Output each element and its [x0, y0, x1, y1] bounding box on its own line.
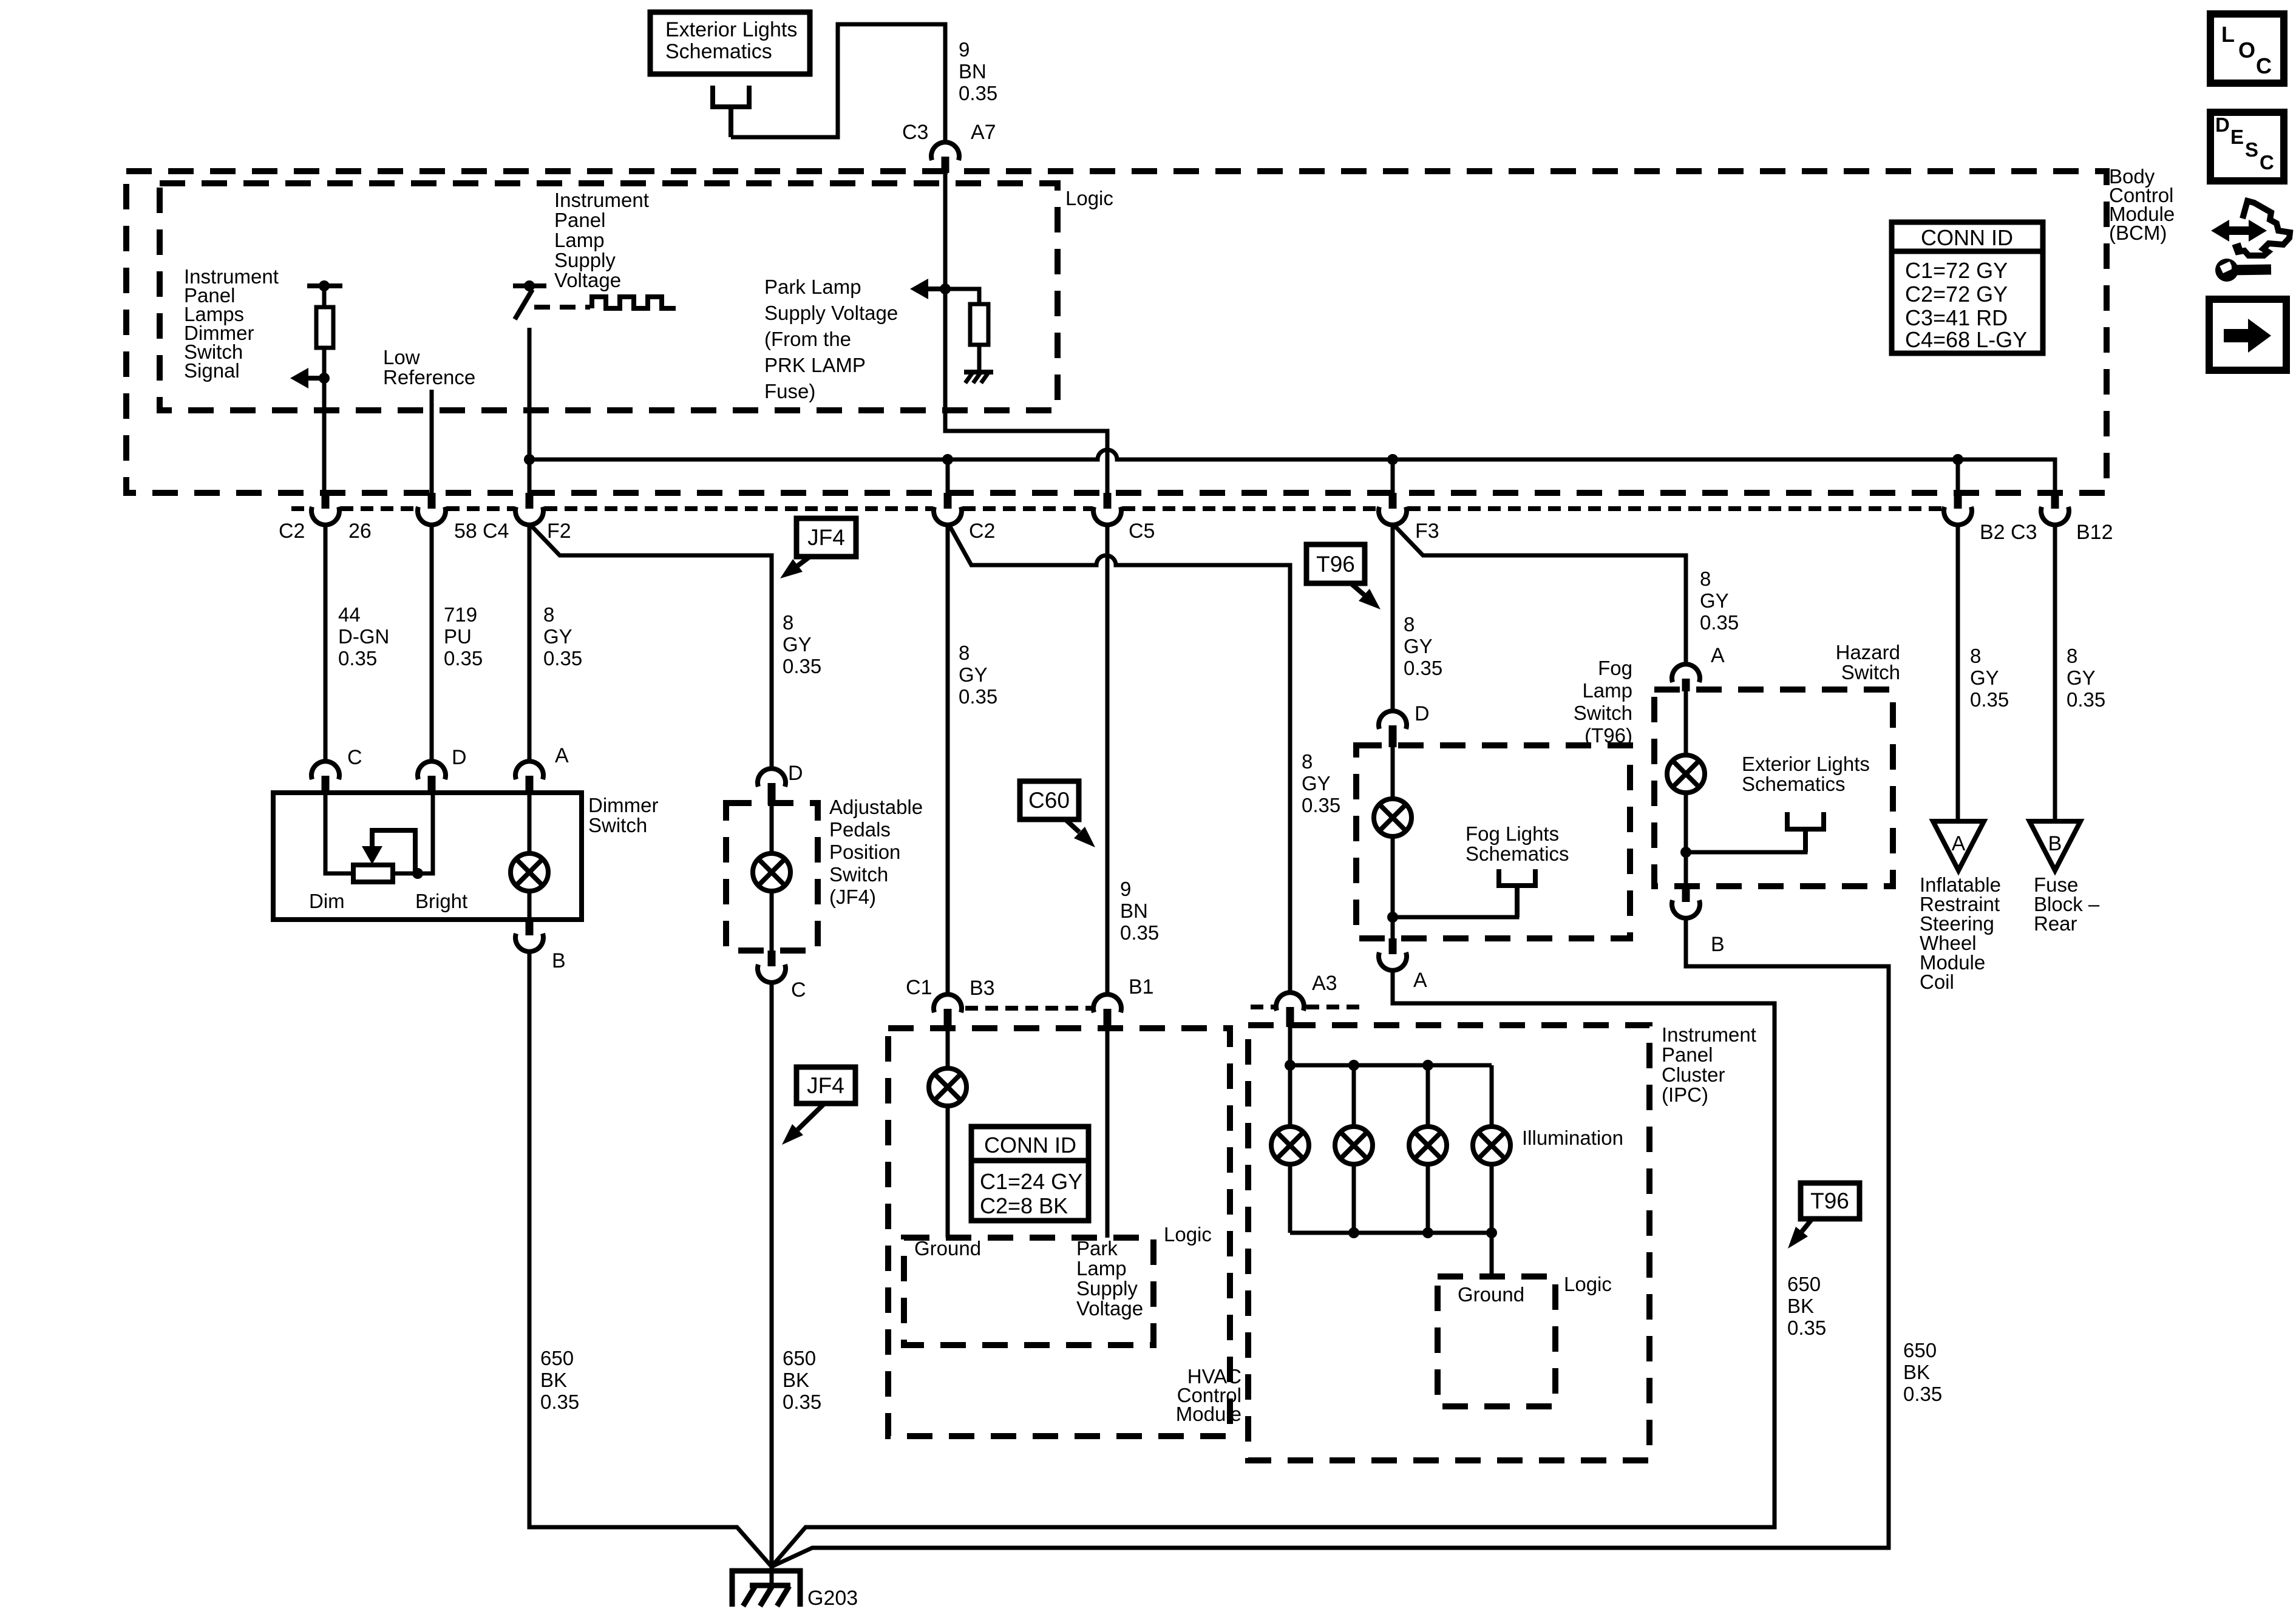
off-page triangle A	[1933, 821, 1984, 870]
connector C dimmer	[311, 761, 339, 795]
svg-text:F3: F3	[1415, 520, 1439, 543]
svg-text:Schematics: Schematics	[665, 40, 772, 63]
svg-text:BK: BK	[1903, 1361, 1930, 1383]
svg-text:Park Lamp: Park Lamp	[764, 276, 861, 298]
svg-text:S: S	[2245, 138, 2258, 161]
CONN ID box BCM	[1892, 222, 2043, 353]
label 9 BN 0.35	[959, 38, 997, 104]
wire to resistor park lamp	[945, 289, 979, 304]
wire 8 GY B2 to triangle A	[1956, 524, 1960, 821]
svg-text:D: D	[788, 762, 803, 785]
svg-text:(JF4): (JF4)	[829, 886, 876, 908]
wire D to lamp fog	[1391, 745, 1395, 799]
junction dot F2 bus	[524, 454, 535, 465]
lamp JF4	[753, 853, 790, 891]
svg-text:8: 8	[1404, 613, 1415, 636]
pulse waveform symbol	[592, 297, 676, 308]
label Instrument Panel Cluster (IPC)	[1662, 1023, 1756, 1106]
label Low Reference	[383, 346, 475, 388]
label Instrument Panel Lamps Dimmer Switch Signal	[184, 265, 279, 382]
label HVAC Control Module	[1176, 1365, 1241, 1425]
svg-text:C2: C2	[279, 520, 305, 543]
bus wire inside BCM with hop over C5 wire	[529, 450, 2055, 493]
label Ground HVAC	[914, 1237, 981, 1259]
svg-text:BK: BK	[540, 1369, 567, 1391]
dash-dot control line	[534, 305, 590, 310]
svg-text:L: L	[2221, 22, 2235, 47]
wire resistor to ground	[977, 345, 982, 372]
label Adjustable Pedals Position Switch (JF4)	[829, 796, 923, 908]
arrow T96 bottom	[1788, 1219, 1812, 1249]
connector C JF4	[758, 951, 786, 983]
svg-text:Switch: Switch	[1841, 661, 1900, 683]
pin label C4	[483, 520, 509, 543]
svg-text:JF4: JF4	[807, 525, 845, 550]
wire lamp to box bottom JF4	[770, 890, 774, 951]
svg-text:Instrument: Instrument	[1662, 1023, 1756, 1046]
pin label C1	[906, 976, 932, 999]
junction dot F3 bus	[1387, 454, 1398, 465]
wire lamp to box bottom dimmer	[528, 890, 532, 920]
connector D fog	[1379, 711, 1407, 747]
pin label 58	[454, 520, 477, 543]
potentiometer dimmer	[353, 865, 393, 882]
svg-text:58: 58	[454, 520, 477, 543]
svg-text:BN: BN	[1120, 900, 1148, 922]
svg-text:Logic: Logic	[1564, 1273, 1612, 1295]
svg-text:GY: GY	[1404, 635, 1433, 657]
wire bus to C2 connector	[946, 459, 950, 493]
svg-text:0.35: 0.35	[2067, 688, 2105, 711]
pin label C JF4	[791, 978, 806, 1002]
svg-text:B2 C3: B2 C3	[1980, 521, 2037, 544]
connector B hazard	[1672, 886, 1700, 918]
svg-text:C4=68 L-GY: C4=68 L-GY	[1905, 327, 2027, 352]
connector D dimmer	[418, 761, 446, 795]
junction dot bus2 c	[1486, 1227, 1497, 1238]
label 44 D-GN 0.35	[338, 603, 389, 670]
pin label F3	[1415, 520, 1439, 543]
svg-text:Schematics: Schematics	[1466, 842, 1569, 865]
svg-text:A: A	[1711, 644, 1725, 667]
illumination bottom bus	[1290, 1231, 1492, 1235]
wire fog junction down	[1391, 917, 1395, 938]
svg-text:GY: GY	[543, 625, 572, 648]
wire lamp hazard to junction	[1684, 793, 1688, 852]
wire from bracket to connector C3 A7	[731, 24, 945, 143]
svg-text:F2: F2	[547, 520, 571, 543]
label box JF4 bottom	[796, 1067, 855, 1103]
label Logic HVAC	[1164, 1223, 1212, 1246]
instrument panel cluster dashed box	[1248, 1025, 1649, 1460]
wire lamp2 top	[1352, 1065, 1356, 1127]
svg-text:8: 8	[959, 642, 970, 664]
label box T96 bottom	[1801, 1183, 1860, 1219]
connector A dimmer	[515, 761, 543, 795]
svg-text:Switch: Switch	[1574, 702, 1632, 724]
lamp hazard	[1667, 755, 1705, 793]
svg-text:Ground: Ground	[914, 1237, 981, 1259]
svg-text:GY: GY	[1970, 666, 1999, 689]
lamp HVAC	[929, 1068, 966, 1106]
pin label C2 HVAC	[969, 520, 995, 543]
wire lamp3 top	[1426, 1065, 1430, 1127]
label 650 BK 0.35 (dimmer)	[540, 1347, 579, 1413]
pin label F2	[547, 520, 571, 543]
pin label A hazard	[1711, 644, 1725, 667]
svg-text:CONN ID: CONN ID	[984, 1133, 1076, 1158]
connector F2 at BCM bottom	[515, 493, 543, 525]
wire 650 BK hazard B to ground	[772, 919, 1889, 1567]
svg-text:Low: Low	[383, 346, 420, 368]
svg-text:0.35: 0.35	[783, 1391, 821, 1413]
svg-text:9: 9	[1120, 878, 1131, 900]
svg-text:0.35: 0.35	[1302, 794, 1340, 816]
label 8 GY 0.35 (F3)	[1404, 613, 1442, 679]
pin label D fog	[1415, 702, 1430, 725]
svg-text:C2=8 BK: C2=8 BK	[980, 1193, 1068, 1218]
svg-text:0.35: 0.35	[959, 685, 997, 708]
svg-text:A7: A7	[971, 121, 996, 144]
in-line dotted line IPC top	[1251, 1005, 1360, 1009]
junction dot bus1 a	[1285, 1060, 1296, 1071]
lamp IPC 1	[1271, 1127, 1309, 1164]
junction dot bus1 c	[1422, 1060, 1433, 1071]
svg-text:GY: GY	[1302, 772, 1331, 795]
CONN ID box HVAC	[971, 1127, 1089, 1221]
svg-text:C: C	[791, 978, 806, 1002]
label 8 GY 0.35 (IPC)	[1302, 750, 1340, 816]
wire 8 GY C2 to HVAC C1	[946, 524, 950, 994]
svg-text:Voltage: Voltage	[554, 269, 621, 291]
adjustable pedals position switch dashed box	[726, 803, 818, 951]
illumination top bus	[1290, 1063, 1492, 1068]
svg-text:C4: C4	[483, 520, 509, 543]
svg-text:B1: B1	[1129, 975, 1154, 998]
connector C3 A7	[931, 142, 959, 173]
label box C60	[1020, 781, 1079, 819]
svg-text:0.35: 0.35	[1970, 688, 2009, 711]
icon box arrow right	[2209, 299, 2286, 370]
wire 8 GY B12 to triangle B	[2053, 524, 2057, 821]
pin label A3	[1312, 972, 1337, 995]
svg-text:O: O	[2238, 38, 2255, 63]
wire hazard junction to bracket	[1686, 829, 1805, 852]
wire 719 PU to dimmer D	[430, 524, 434, 761]
svg-text:A: A	[1413, 969, 1427, 992]
off-page triangle B	[2029, 821, 2080, 870]
label Body Control Module (BCM)	[2109, 165, 2175, 244]
wire Low Reference to 58 C4 connector	[430, 390, 434, 493]
svg-text:(IPC): (IPC)	[1662, 1083, 1708, 1106]
in-line dotted line HVAC top	[965, 1006, 1092, 1011]
svg-text:Fog: Fog	[1598, 657, 1632, 679]
connector C5 at BCM bottom	[1093, 493, 1121, 525]
label Park Lamp Supply Voltage HVAC	[1076, 1237, 1143, 1320]
label C3	[902, 121, 928, 144]
bracket fog lights schematics	[1499, 869, 1535, 917]
svg-text:GY: GY	[2067, 666, 2096, 689]
svg-text:Coil: Coil	[1920, 971, 1954, 993]
svg-text:C: C	[2260, 151, 2274, 174]
icon box LOC	[2210, 14, 2284, 83]
icon vehicle with wrench	[2211, 201, 2290, 282]
svg-text:Lamp: Lamp	[1076, 1257, 1127, 1280]
label Fog Lamp Switch (T96)	[1574, 657, 1632, 747]
hazard switch dashed box	[1654, 690, 1893, 886]
label Hazard Switch	[1836, 641, 1900, 683]
wire 8 GY F2 to dimmer A	[528, 524, 532, 761]
label 8 GY 0.35 (B2)	[1970, 645, 2009, 711]
svg-text:Bright: Bright	[415, 890, 467, 912]
resistor R dimmer signal	[316, 288, 333, 348]
pin label B2 C3	[1980, 521, 2037, 544]
lamp IPC 2	[1335, 1127, 1373, 1164]
switch blade IP lamp supply	[515, 290, 532, 319]
wire A to lamp hazard	[1684, 690, 1688, 755]
lamp fog	[1374, 799, 1411, 836]
svg-text:(BCM): (BCM)	[2109, 222, 2167, 244]
in-line connector dotted line BCM bottom	[291, 506, 1943, 511]
svg-text:Supply Voltage: Supply Voltage	[764, 302, 898, 324]
connector B dimmer	[515, 920, 543, 952]
wire 650 BK fog A to ground	[772, 971, 1775, 1567]
lamp IPC 4	[1473, 1127, 1510, 1164]
svg-text:A: A	[555, 744, 569, 767]
wire lamp1 top	[1288, 1065, 1292, 1127]
label 650 BK 0.35 (hazard)	[1903, 1339, 1942, 1405]
svg-text:B3: B3	[970, 977, 995, 1000]
svg-text:0.35: 0.35	[543, 647, 582, 670]
svg-text:D: D	[452, 746, 467, 769]
svg-text:0.35: 0.35	[1404, 657, 1442, 679]
svg-text:T96: T96	[1810, 1188, 1849, 1213]
svg-text:650: 650	[1903, 1339, 1937, 1361]
svg-text:C3: C3	[902, 121, 928, 144]
svg-text:A3: A3	[1312, 972, 1337, 995]
box Exterior Lights Schematics (top reference)	[650, 12, 810, 74]
pin label C2	[279, 520, 305, 543]
wire C3 A7 down and jog to C5	[945, 171, 1107, 493]
svg-text:Logic: Logic	[1164, 1223, 1212, 1246]
svg-text:8: 8	[1970, 645, 1981, 667]
svg-text:44: 44	[338, 603, 361, 626]
svg-text:8: 8	[1700, 568, 1711, 590]
svg-text:0.35: 0.35	[540, 1391, 579, 1413]
wire A to lamp dimmer	[528, 793, 532, 854]
svg-text:Park: Park	[1076, 1237, 1118, 1259]
svg-text:C1=72 GY: C1=72 GY	[1905, 258, 2008, 283]
junction dot dimmer signal	[319, 373, 330, 384]
svg-text:GY: GY	[783, 633, 812, 656]
svg-text:0.35: 0.35	[1700, 611, 1739, 634]
label Fuse Block Rear	[2034, 873, 2100, 935]
svg-text:0.35: 0.35	[783, 655, 821, 677]
label G203	[807, 1587, 858, 1610]
svg-text:Dimmer: Dimmer	[588, 794, 658, 816]
svg-text:C: C	[347, 746, 362, 769]
svg-text:Reference: Reference	[383, 366, 475, 388]
wire bus to F3 connector	[1391, 459, 1395, 493]
pin label C dimmer	[347, 746, 362, 769]
connector C2 HVAC at BCM bottom	[934, 493, 962, 525]
wire lamp4 bottom	[1490, 1164, 1494, 1233]
svg-text:0.35: 0.35	[444, 647, 483, 670]
label Dim	[309, 890, 345, 912]
junction dot bus2 b	[1422, 1227, 1433, 1238]
svg-text:BK: BK	[783, 1369, 809, 1391]
wire 44 D-GN to dimmer C	[324, 524, 328, 761]
svg-text:B: B	[2048, 832, 2062, 855]
wire JF4 top to lamp	[770, 803, 774, 854]
arrow Instrument Panel Lamps Dimmer Switch Signal	[290, 368, 324, 388]
node bar for lamp supply switch	[513, 280, 546, 291]
svg-text:C5: C5	[1129, 520, 1155, 543]
svg-text:GY: GY	[959, 663, 988, 686]
svg-text:C60: C60	[1028, 788, 1070, 813]
svg-text:Cluster: Cluster	[1662, 1063, 1725, 1086]
wire 650 BK JF4 to ground	[770, 983, 774, 1569]
svg-text:GY: GY	[1700, 589, 1729, 612]
svg-text:Signal: Signal	[184, 359, 240, 382]
label Fog Lights Schematics	[1466, 822, 1569, 865]
fog lamp switch dashed box	[1356, 745, 1630, 938]
connector A3 IPC	[1276, 992, 1304, 1027]
svg-text:0.35: 0.35	[1787, 1317, 1826, 1339]
bracket symbol below Exterior Lights box	[713, 86, 749, 137]
connector 58 C4 at BCM bottom	[418, 493, 446, 525]
pin label B12	[2076, 521, 2113, 544]
label Logic (BCM)	[1065, 187, 1113, 209]
arrow JF4 bottom	[782, 1103, 824, 1145]
label 8 GY 0.35 (HVAC)	[959, 642, 997, 708]
svg-text:0.35: 0.35	[338, 647, 377, 670]
svg-text:650: 650	[1787, 1273, 1821, 1295]
svg-text:BK: BK	[1787, 1295, 1814, 1317]
pin label B hazard	[1711, 933, 1725, 956]
svg-text:Lamp: Lamp	[1582, 679, 1632, 702]
junction dot B2 bus	[1952, 454, 1963, 465]
pin label A fog	[1413, 969, 1427, 992]
svg-text:C2: C2	[969, 520, 995, 543]
wire bus to B2 C3 connector	[1956, 459, 1960, 493]
svg-text:Switch: Switch	[829, 863, 888, 886]
label Inflatable Restraint Steering Wheel Module Coil	[1920, 873, 2001, 993]
pin label C5	[1129, 520, 1155, 543]
connector C1 B3 HVAC	[934, 994, 962, 1030]
pin label B3	[970, 977, 995, 1000]
wire B1 to logic box	[1106, 1028, 1110, 1238]
svg-text:(From the: (From the	[764, 328, 851, 350]
label Park Lamp Supply Voltage (From the PRK LAMP Fuse)	[764, 276, 898, 402]
label Dimmer Switch	[588, 794, 658, 836]
svg-text:Position: Position	[829, 841, 900, 863]
ground symbol BCM internal	[964, 372, 993, 383]
svg-text:26: 26	[348, 520, 372, 543]
node bar for dimmer switch signal	[307, 280, 342, 291]
svg-text:Fuse): Fuse)	[764, 380, 815, 402]
svg-text:Logic: Logic	[1065, 187, 1113, 209]
connector A hazard	[1672, 664, 1700, 691]
svg-text:Hazard: Hazard	[1836, 641, 1900, 663]
svg-text:Rear: Rear	[2034, 912, 2077, 935]
wire to IPC ground logic	[1490, 1233, 1494, 1276]
svg-text:C: C	[2256, 53, 2272, 78]
BCM Logic dashed box	[160, 183, 1058, 410]
pin label B1	[1129, 975, 1154, 998]
svg-text:Panel: Panel	[1662, 1043, 1713, 1066]
junction dot bus1 b	[1348, 1060, 1359, 1071]
label Bright	[415, 890, 467, 912]
connector B2 C3 at BCM bottom	[1944, 493, 1972, 525]
svg-text:Dim: Dim	[309, 890, 345, 912]
svg-text:C1=24 GY: C1=24 GY	[980, 1169, 1082, 1194]
connector C2 26 at BCM bottom	[311, 493, 339, 525]
svg-text:Module: Module	[1176, 1403, 1241, 1425]
svg-text:PU: PU	[444, 625, 472, 648]
wire resistor to C2 connector	[322, 348, 327, 493]
svg-text:0.35: 0.35	[1903, 1383, 1942, 1405]
svg-text:D: D	[1415, 702, 1430, 725]
connector B12 at BCM bottom	[2041, 493, 2069, 525]
junction dot C2 bus	[942, 454, 953, 465]
svg-text:JF4: JF4	[807, 1073, 844, 1098]
svg-text:C1: C1	[906, 976, 932, 999]
resistor R park lamp	[970, 304, 988, 345]
pin label D dimmer	[452, 746, 467, 769]
bracket exterior lights schematics	[1787, 812, 1824, 852]
wiper arrow dimmer	[362, 830, 415, 871]
svg-text:CONN ID: CONN ID	[1921, 225, 2013, 250]
svg-text:Fog Lights: Fog Lights	[1466, 822, 1559, 845]
wire 9 BN C5 to HVAC B1	[1106, 524, 1110, 994]
svg-text:B: B	[1711, 933, 1725, 956]
wire C inside dimmer	[325, 793, 353, 873]
svg-text:9: 9	[959, 38, 970, 61]
arrow JF4 top	[780, 557, 810, 578]
lamp IPC 3	[1409, 1127, 1447, 1164]
svg-text:0.35: 0.35	[1120, 921, 1159, 944]
label Illumination	[1522, 1127, 1623, 1149]
svg-text:650: 650	[783, 1347, 816, 1369]
HVAC logic dashed box	[904, 1238, 1153, 1345]
wire 8 GY F3 to fog switch D	[1391, 524, 1395, 711]
svg-text:E: E	[2230, 126, 2244, 148]
svg-text:Ground: Ground	[1458, 1283, 1524, 1306]
label 719 PU 0.35	[444, 603, 483, 670]
connector D JF4	[758, 768, 786, 805]
svg-text:Supply: Supply	[1076, 1277, 1138, 1300]
label 8 GY 0.35 (hazard)	[1700, 568, 1739, 634]
wire lamp HVAC to logic box	[946, 1106, 950, 1238]
wire 650 BK dimmer B to ground	[529, 951, 772, 1567]
wire lamp3 bottom	[1426, 1164, 1430, 1233]
svg-text:Pedals: Pedals	[829, 818, 891, 841]
label 8 GY 0.35 (JF4)	[783, 611, 821, 677]
svg-text:Adjustable: Adjustable	[829, 796, 923, 818]
svg-text:B: B	[552, 949, 566, 972]
svg-text:0.35: 0.35	[959, 82, 997, 104]
junction dot fog	[1387, 912, 1398, 923]
label Instrument Panel Lamp Supply Voltage	[554, 189, 649, 291]
svg-text:Exterior Lights: Exterior Lights	[1742, 753, 1870, 775]
label 8 GY 0.35 (B12)	[2067, 645, 2105, 711]
label A7	[971, 121, 996, 144]
svg-text:G203: G203	[807, 1587, 858, 1610]
svg-text:8: 8	[543, 603, 554, 626]
junction dot hazard	[1680, 847, 1691, 858]
label Logic IPC	[1564, 1273, 1612, 1295]
